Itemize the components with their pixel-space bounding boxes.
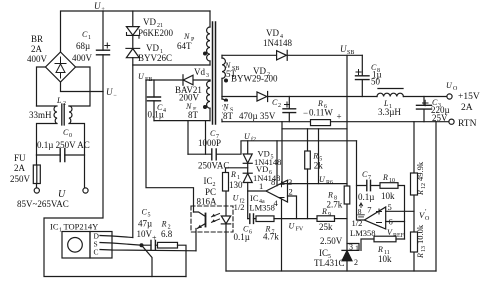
label C7b 0.1u <box>358 170 374 202</box>
svg-text:8: 8 <box>358 207 362 216</box>
wire IC4a pin2 input <box>288 196 297 219</box>
svg-text:50: 50 <box>371 77 381 87</box>
svg-text:U: U <box>340 44 347 54</box>
svg-text:3: 3 <box>349 243 353 252</box>
svg-text:U: U <box>106 87 113 97</box>
label R5 2k <box>312 152 323 171</box>
label C1 68u 400V <box>72 30 93 63</box>
transformer feedback winding NF 8T <box>207 80 210 121</box>
wire bridge left vertex to left AC rail <box>37 67 46 106</box>
polarity dot NS <box>224 99 228 103</box>
label VD6 1N4148 <box>253 164 280 183</box>
svg-text:0.1µ: 0.1µ <box>148 110 164 120</box>
svg-text:1000P: 1000P <box>198 138 221 148</box>
output terminal RTN <box>449 119 454 124</box>
label C4 0.1u <box>148 103 167 120</box>
resistor R2 6.8 <box>158 242 187 276</box>
opto phototransistor <box>194 212 206 251</box>
resistor R11 10k <box>361 236 405 250</box>
node Uf2 label upper <box>244 132 256 143</box>
AC input terminal left <box>34 188 39 193</box>
wire Uf2 bus <box>282 128 347 130</box>
svg-text:10k: 10k <box>381 191 395 201</box>
label Vd3 BAV21 200V <box>175 67 209 103</box>
svg-text:7: 7 <box>368 175 371 181</box>
label R6 0.11W - + <box>303 99 342 122</box>
svg-text:−: − <box>303 108 308 118</box>
svg-text:2A: 2A <box>14 163 26 173</box>
svg-text:7: 7 <box>367 205 371 215</box>
output terminal Uo <box>447 94 452 99</box>
pin labels D S C <box>94 232 100 257</box>
svg-text:0: 0 <box>69 133 72 139</box>
svg-text:1N4148: 1N4148 <box>253 173 280 183</box>
label C7 1000P 250VAC <box>198 129 229 171</box>
svg-text:BR: BR <box>31 34 43 44</box>
label U 85V~265VAC <box>17 189 69 209</box>
inductor L2 common-mode choke <box>37 104 85 188</box>
svg-text:13: 13 <box>421 246 427 252</box>
polarity dot NP <box>203 52 207 56</box>
resistor R7 4.7k <box>256 216 317 222</box>
svg-text:2: 2 <box>354 258 358 267</box>
svg-text:2A: 2A <box>31 44 43 54</box>
svg-text:R6: R6 <box>326 180 333 186</box>
svg-text:1/2: 1/2 <box>234 202 245 212</box>
AC input terminal right <box>83 188 88 193</box>
label L1 3.3uH <box>378 99 401 117</box>
bridge rectifier BR <box>46 52 76 82</box>
pin lead S <box>100 243 142 246</box>
wire USB feed horizontal <box>241 140 357 142</box>
wire IC4b pin5 <box>386 210 414 212</box>
svg-text:400V: 400V <box>72 53 93 63</box>
capacitor C4 0.1u <box>148 80 161 121</box>
svg-text:400V: 400V <box>27 54 48 64</box>
svg-text:2: 2 <box>278 103 281 109</box>
svg-text:0.11W: 0.11W <box>309 108 333 118</box>
ground rail secondary <box>226 270 436 272</box>
svg-text:10: 10 <box>389 178 395 184</box>
wire IC4a pin3 input <box>282 183 347 185</box>
capacitor C3 220u 25V <box>417 97 432 122</box>
label BR 2A 400V <box>27 34 48 64</box>
svg-text:49.9k: 49.9k <box>415 161 425 181</box>
label RTN <box>458 119 477 129</box>
node U+ label <box>94 1 105 13</box>
label R1 130 <box>229 170 243 190</box>
svg-text:+: + <box>152 234 157 243</box>
resistor R12 49.9k <box>411 173 418 195</box>
node UR6 label <box>319 175 333 186</box>
svg-text:2.50V: 2.50V <box>320 236 343 246</box>
label R11 10k <box>377 245 392 264</box>
label Uo +15V 2A <box>446 81 480 113</box>
wire U- from bridge bottom <box>61 82 104 92</box>
svg-text:R: R <box>312 152 318 161</box>
svg-text:+15V: +15V <box>458 92 480 102</box>
svg-text:64T: 64T <box>177 41 192 51</box>
svg-text:2A: 2A <box>461 103 473 113</box>
inductor L1 3.3uH <box>377 89 403 97</box>
svg-text:SB: SB <box>347 50 354 56</box>
svg-text:O: O <box>425 216 430 222</box>
svg-text:R: R <box>382 173 388 182</box>
svg-text:47µ: 47µ <box>138 219 152 229</box>
wire IC4a output <box>248 190 266 192</box>
fuse FU <box>33 155 40 188</box>
polarity dot NSB <box>224 79 228 83</box>
resistor R9 25k <box>317 216 347 222</box>
svg-text:25V: 25V <box>432 113 448 123</box>
wire drain to primary bottom <box>133 64 210 66</box>
svg-text:3: 3 <box>288 177 292 187</box>
secondary rectifier rail +15V <box>222 96 449 98</box>
svg-text:1: 1 <box>355 244 359 253</box>
label R7 4.7k <box>263 225 279 242</box>
RTN rail with R6 <box>222 121 451 123</box>
wire UFB riser <box>146 80 194 212</box>
wire IC4b pin6 <box>386 221 405 223</box>
wire Uf2 branch riser <box>318 129 320 184</box>
svg-text:LM358: LM358 <box>249 203 275 213</box>
svg-text:3: 3 <box>206 73 209 79</box>
wire NSB to VD4 <box>222 54 277 56</box>
svg-text:R: R <box>416 253 425 259</box>
op-amp IC4a LM358 <box>266 180 288 202</box>
divider riser R12 R13 <box>413 122 415 271</box>
pin lead D <box>100 236 133 238</box>
capacitor C6 0.1u <box>248 214 256 223</box>
svg-text:L: L <box>56 96 62 105</box>
capacitor C7 1000P 250VAC <box>188 142 241 160</box>
resistor R13 10.0k <box>411 232 418 252</box>
svg-text:250V: 250V <box>10 174 31 184</box>
svg-text:12: 12 <box>421 183 427 189</box>
wire bridge right vertex to right AC rail <box>69 67 90 106</box>
svg-text:+: + <box>337 112 342 122</box>
svg-text:2: 2 <box>289 187 293 197</box>
capacitor C7b 0.1u <box>357 180 381 190</box>
label R8 2.7k <box>327 191 343 210</box>
svg-text:5: 5 <box>388 202 392 212</box>
wire riser C7 primary side <box>187 121 189 155</box>
node USB label <box>340 44 354 56</box>
capacitor C5 47u 10V <box>142 240 158 249</box>
svg-text:IC: IC <box>319 248 328 258</box>
label NF 8T <box>185 101 200 120</box>
svg-text:0.1µ 250V AC: 0.1µ 250V AC <box>37 140 90 150</box>
label C0 0.1u 250V AC <box>37 128 90 150</box>
svg-text:2.7k: 2.7k <box>327 200 343 210</box>
svg-text:0.1µ: 0.1µ <box>234 232 250 242</box>
diode VD6 1N4148 <box>243 163 252 218</box>
transformer primary winding NP 64T <box>207 11 210 65</box>
svg-text:4.7k: 4.7k <box>263 232 279 242</box>
svg-text:1: 1 <box>259 181 263 191</box>
label 1/2 LM358 <box>350 218 376 238</box>
label IC4a pins 1 8 3 2 4 <box>259 177 293 208</box>
svg-text:68µ: 68µ <box>76 41 90 51</box>
label NSB 5T <box>224 61 239 79</box>
junction dot source node <box>140 243 144 247</box>
label VREF <box>387 228 405 239</box>
capacitor C8 1u 50 <box>356 55 370 96</box>
svg-text:250VAC: 250VAC <box>198 161 229 171</box>
label VD4 1N4148 <box>263 28 292 48</box>
svg-text:PC: PC <box>205 187 216 197</box>
svg-text:33mH: 33mH <box>29 110 52 120</box>
svg-text:IC: IC <box>204 176 213 186</box>
svg-text:BYV26C: BYV26C <box>138 53 172 63</box>
svg-text:BYW29-200: BYW29-200 <box>231 74 278 84</box>
label R9 25k <box>319 207 333 232</box>
label NP 64T <box>177 32 195 51</box>
resistor R1 130 <box>223 168 248 191</box>
svg-text:IC: IC <box>250 193 259 203</box>
node U- label <box>106 87 117 99</box>
diode VD1 BYV26C <box>126 48 140 237</box>
svg-text:200V: 200V <box>179 93 200 103</box>
diode VD2 BYW29-200 <box>257 92 268 102</box>
svg-text:RTN: RTN <box>458 119 477 129</box>
svg-text:10V: 10V <box>137 229 153 239</box>
svg-text:1: 1 <box>59 228 62 234</box>
label FU 2A 250V <box>10 153 31 184</box>
label IC2 PC 816A <box>197 176 218 207</box>
resistor R6 0.11W <box>311 120 331 126</box>
diode Vd3 BAV21 <box>146 75 210 85</box>
node VO' label <box>419 208 430 222</box>
node UFB label <box>138 72 152 83</box>
wire Uf2 sense riser <box>281 122 283 184</box>
svg-text:10k: 10k <box>378 254 392 264</box>
svg-text:8: 8 <box>271 177 275 187</box>
capacitor C2 470u 35V <box>283 97 296 122</box>
svg-text:R: R <box>377 245 383 254</box>
opto light arrows <box>212 214 220 223</box>
polarity dot NF <box>203 105 207 109</box>
node UFV label <box>289 222 304 233</box>
wire IC4a pin8 riser <box>276 141 278 186</box>
transformer T core <box>213 22 216 124</box>
svg-text:TOP214Y: TOP214Y <box>64 222 99 232</box>
svg-text:8T: 8T <box>188 110 199 120</box>
wire IC4a pin4 riser <box>281 199 283 271</box>
capacitor C0 X-cap <box>37 149 85 162</box>
label TL431 pins 3 1 2 <box>349 243 359 268</box>
svg-text:R: R <box>327 191 333 200</box>
wire riser to opto collector line <box>205 121 207 155</box>
wire IC4b output riser <box>357 141 365 220</box>
resistor R8 2.7k <box>344 186 350 204</box>
TVS diode VD21 P6KE200 <box>126 11 139 48</box>
svg-text:−: − <box>113 93 117 99</box>
svg-text:P6KE200: P6KE200 <box>138 28 174 38</box>
label NS 8T <box>222 102 235 122</box>
label 2.50V <box>320 236 343 246</box>
svg-text:470µ 35V: 470µ 35V <box>239 111 276 121</box>
svg-text:6.8: 6.8 <box>161 229 173 239</box>
svg-text:2k: 2k <box>314 161 324 171</box>
svg-text:LM358: LM358 <box>350 228 376 238</box>
svg-text:9: 9 <box>328 212 331 218</box>
label VD1 BYV26C <box>138 43 172 63</box>
svg-text:25k: 25k <box>319 222 333 232</box>
label IC4a LM358 <box>249 193 275 213</box>
wire source to ground rail <box>142 245 153 276</box>
label L2 33mH <box>29 96 66 120</box>
svg-text:N: N <box>183 32 190 41</box>
label C6 0.1u <box>234 225 253 242</box>
optocoupler IC2 PC816A dashed box <box>191 206 233 232</box>
svg-text:VD: VD <box>143 17 156 27</box>
wire U- riser down to IC1 area <box>44 92 186 277</box>
label Uf2 1/2 left of IC4a <box>233 194 245 213</box>
wire U+ top rail <box>61 11 211 52</box>
op-amp IC4b LM358 <box>364 207 385 229</box>
svg-text:2: 2 <box>63 101 66 107</box>
IC1 TOP214Y package <box>62 232 112 259</box>
pin lead C <box>100 250 196 251</box>
opto LED <box>221 191 230 271</box>
svg-text:Vd: Vd <box>194 67 205 77</box>
label IC1 TOP214Y <box>50 222 98 234</box>
label C8 1u 50 <box>371 63 382 87</box>
svg-text:VD: VD <box>266 28 279 38</box>
label IC5 TL431C <box>314 248 345 268</box>
wire USB riser <box>346 55 348 250</box>
svg-text:0.1µ: 0.1µ <box>358 192 374 202</box>
shunt reference IC5 TL431C <box>342 244 359 272</box>
resistor R10 10k <box>380 183 405 239</box>
label C3 220u 25V <box>431 98 450 123</box>
svg-text:U: U <box>94 1 101 11</box>
diode VD5 1N4148 <box>243 141 252 164</box>
svg-text:TL431C: TL431C <box>314 258 345 268</box>
label C2 470u 35V <box>239 98 281 121</box>
label R12 49.9k rotated <box>415 161 427 196</box>
svg-text:R: R <box>230 170 236 179</box>
svg-text:R: R <box>416 190 425 196</box>
label VD2 BYW29-200 <box>231 66 278 84</box>
svg-text:VD: VD <box>146 43 159 53</box>
capacitor C1 <box>97 11 110 92</box>
svg-text:3.3µH: 3.3µH <box>378 107 401 117</box>
svg-text:816A: 816A <box>197 197 218 207</box>
svg-text:85V~265VAC: 85V~265VAC <box>17 199 69 209</box>
transformer bias winding NSB 5T <box>222 55 225 96</box>
transformer secondary winding NS 8T <box>222 97 225 122</box>
label C5 47u 10V+ <box>137 208 158 243</box>
wire C4 bottom to NF bottom <box>154 120 210 122</box>
label IC4b pins 7 5 6 <box>367 202 392 227</box>
svg-text:130: 130 <box>229 180 243 190</box>
svg-text:f2: f2 <box>251 136 256 143</box>
svg-text:R: R <box>161 220 167 229</box>
svg-text:10.0k: 10.0k <box>415 224 425 244</box>
label R13 10.0k rotated <box>415 224 427 259</box>
wire RTN right riser <box>435 122 437 271</box>
label VD5 1N4148 <box>254 149 281 168</box>
svg-text:FV: FV <box>296 227 304 233</box>
resistor R5 2k <box>305 129 311 219</box>
svg-text:8T: 8T <box>223 111 234 121</box>
svg-text:IC: IC <box>50 222 59 232</box>
label R2 6.8 <box>161 220 173 240</box>
IC4b power pin mark <box>358 203 365 217</box>
label R10 10k <box>381 173 395 201</box>
svg-text:FU: FU <box>14 153 26 163</box>
svg-text:1N4148: 1N4148 <box>263 38 292 48</box>
label VD21 P6KE200 <box>138 17 174 38</box>
diode VD4 1N4148 <box>277 50 363 60</box>
svg-text:C: C <box>94 248 99 257</box>
